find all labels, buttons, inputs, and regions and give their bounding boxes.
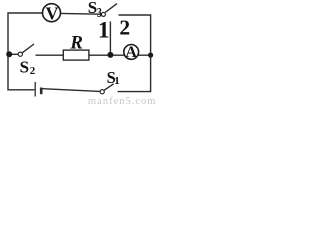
svg-text:1: 1	[98, 18, 110, 43]
svg-text:1: 1	[114, 75, 120, 87]
svg-text:manfen5.com: manfen5.com	[88, 96, 156, 104]
svg-text:S: S	[88, 0, 97, 17]
svg-text:2: 2	[119, 15, 130, 39]
svg-text:R: R	[69, 33, 83, 54]
svg-text:2: 2	[30, 65, 36, 77]
svg-text:V: V	[46, 4, 59, 24]
svg-text:S: S	[20, 58, 29, 77]
svg-text:A: A	[125, 44, 137, 61]
